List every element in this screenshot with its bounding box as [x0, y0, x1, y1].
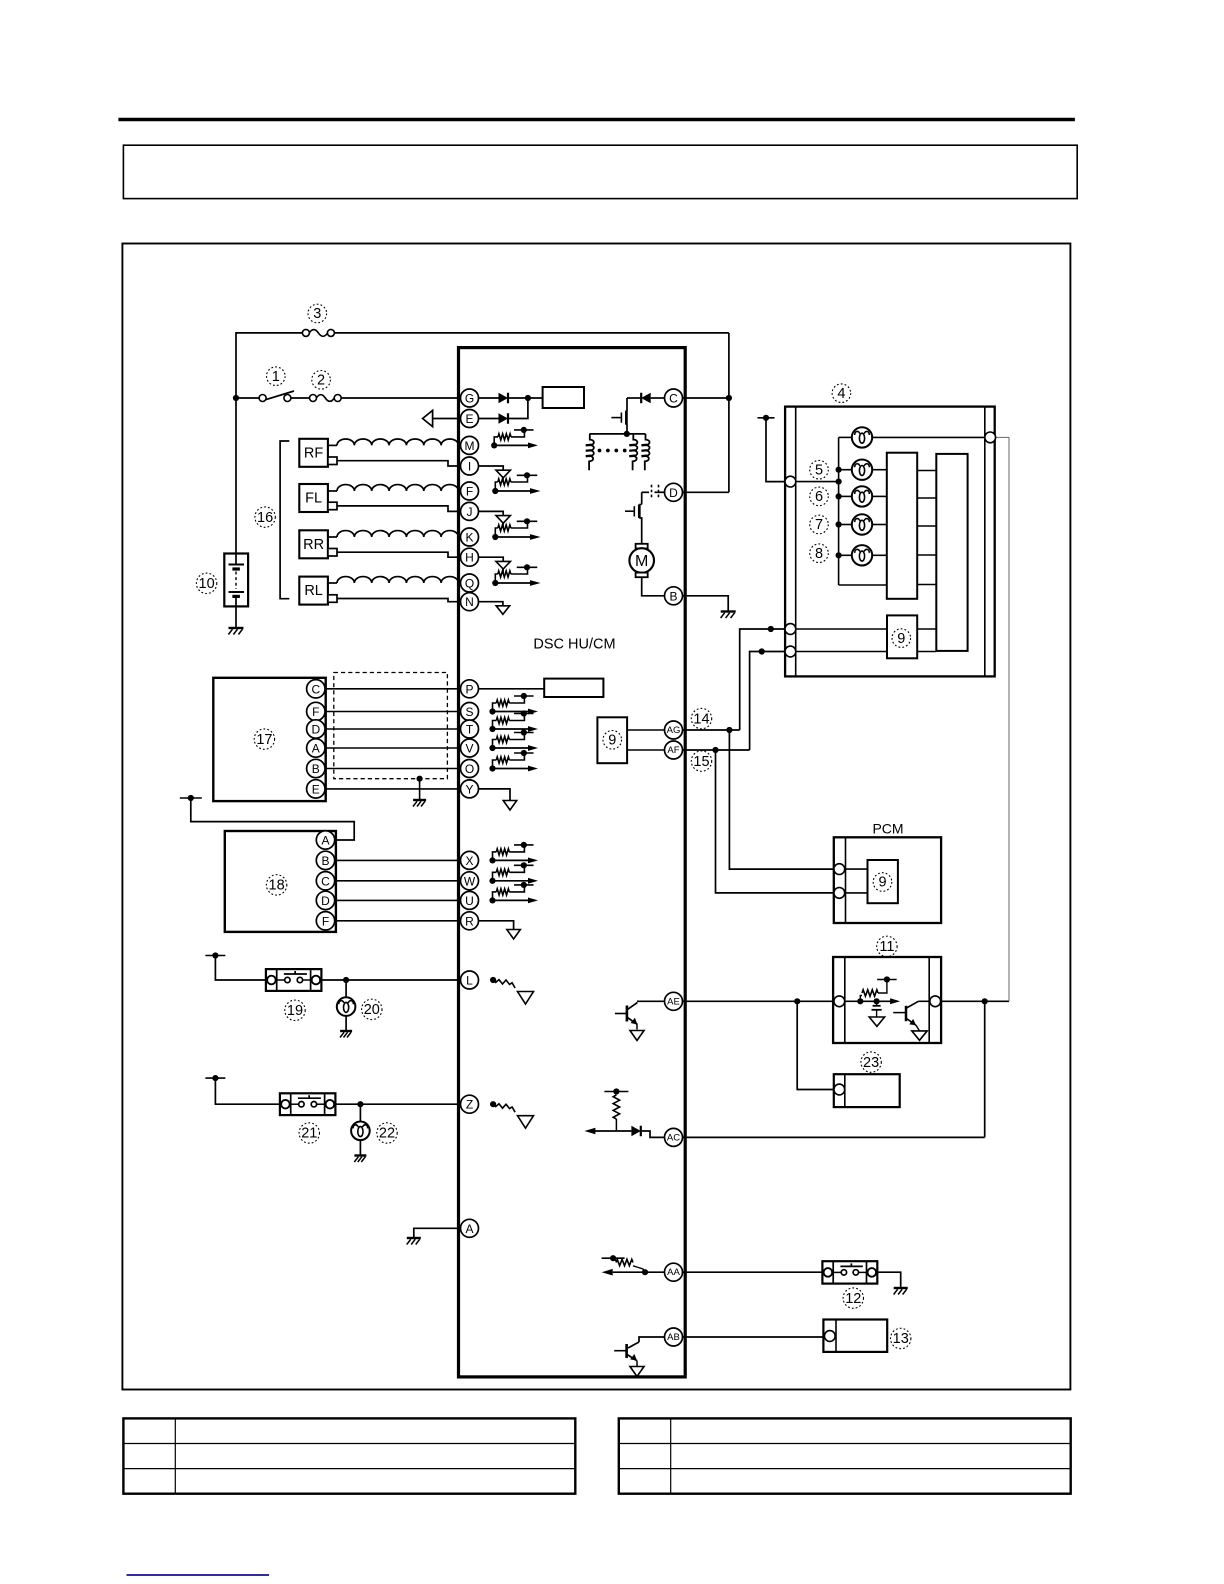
svg-text:16: 16 [257, 510, 273, 526]
thin feed from module 4 [996, 436, 1009, 438]
svg-text:10: 10 [199, 576, 215, 592]
svg-text:F: F [312, 705, 319, 719]
svg-text:U: U [465, 894, 474, 908]
wire pin B to ground [683, 596, 729, 612]
wire AE branch to unit 23 [797, 1001, 834, 1089]
pin Y [461, 780, 479, 798]
svg-text:F: F [322, 914, 329, 928]
svg-text:X: X [465, 854, 473, 868]
svg-text:19: 19 [287, 1003, 303, 1019]
page header rule [118, 118, 1075, 122]
lamp bus [838, 437, 840, 585]
wire 17-C to DSC [325, 688, 461, 690]
pin Q [461, 574, 479, 592]
svg-text:9: 9 [878, 875, 886, 891]
pin T [461, 720, 479, 738]
bus junctions [836, 467, 842, 473]
network at pin Z [490, 1101, 496, 1107]
svg-text:21: 21 [301, 1126, 317, 1142]
svg-text:9: 9 [897, 631, 905, 647]
wheel sensor RF [299, 439, 328, 467]
svg-text:18: 18 [269, 878, 285, 894]
svg-text:V: V [465, 742, 473, 756]
pin E [461, 410, 479, 428]
module 4 pins [785, 476, 796, 487]
wire fuse 19 to pin L [321, 979, 460, 981]
transformer center tap [626, 425, 628, 434]
svg-text:E: E [312, 782, 320, 796]
pin AB [665, 1328, 683, 1346]
wire 17-E to DSC [325, 788, 461, 790]
label 14 [691, 708, 711, 728]
CAN unit 9 in module 4 [887, 615, 917, 658]
input network T [489, 726, 495, 732]
PCM box [834, 837, 941, 923]
wire AA to fuse 12 [683, 1271, 823, 1273]
node C junction [726, 395, 732, 401]
svg-text:H: H [465, 551, 474, 565]
svg-text:I: I [468, 460, 471, 474]
svg-text:B: B [321, 854, 329, 868]
wire to pin C [683, 397, 729, 399]
wire pin A to ground [414, 1228, 461, 1238]
svg-text:RF: RF [304, 445, 323, 461]
wire RF signal (coiled) [328, 444, 337, 446]
pin B of 17 [307, 759, 325, 777]
control block at P [544, 679, 603, 697]
combination meter 4 [785, 407, 995, 677]
pin W [461, 872, 479, 890]
svg-text:B: B [312, 762, 320, 776]
wire motor to pin B [642, 577, 665, 596]
wire AG to indicator module 4 [683, 729, 740, 731]
wire fuse 21 to pin Z [335, 1103, 460, 1105]
wire RL signal (coiled) [328, 582, 337, 584]
pin AA [665, 1263, 683, 1281]
svg-text:AC: AC [667, 1132, 680, 1143]
pin A of 18 [316, 831, 334, 849]
input network S [489, 708, 495, 714]
wire 17-D to DSC [325, 728, 461, 730]
wire to pin D [683, 491, 729, 493]
diode at pin E [479, 418, 499, 420]
wheel sensor FL [299, 484, 328, 512]
pin B [665, 587, 683, 605]
wire 17-A to DSC [325, 747, 461, 749]
network at pin AA [602, 1257, 625, 1259]
pin AE [665, 992, 683, 1010]
pin H [461, 548, 479, 566]
CAN unit 9 in PCM [868, 860, 898, 903]
pin D of 17 [307, 720, 325, 738]
svg-text:R: R [465, 914, 474, 928]
input network W [489, 878, 495, 884]
riser to pins C and D [728, 333, 730, 492]
svg-text:22: 22 [379, 1126, 395, 1142]
dashed link at pin D [651, 485, 653, 500]
wire pin D to motor MOSFET [655, 491, 665, 493]
pin I [461, 457, 479, 475]
svg-text:RR: RR [303, 537, 324, 553]
svg-text:Z: Z [466, 1098, 473, 1112]
transformer primary coil [589, 434, 594, 470]
svg-text:6: 6 [815, 489, 823, 505]
svg-text:C: C [311, 682, 320, 696]
wire switch to fuse 2 [291, 397, 310, 399]
fuse 12 [822, 1261, 877, 1283]
battery 10 [224, 554, 248, 607]
wire 17-F to DSC [325, 711, 461, 713]
footer link line [127, 1574, 270, 1576]
pin B of 18 [316, 851, 334, 869]
warning lamp 20 [345, 980, 347, 997]
driver block 2 [936, 454, 967, 651]
svg-text:P: P [465, 682, 473, 696]
wire 18-B to DSC [325, 859, 461, 861]
shield ground [417, 776, 423, 782]
svg-text:B: B [669, 589, 677, 603]
pin J [461, 502, 479, 520]
svg-text:A: A [321, 834, 329, 848]
svg-text:K: K [465, 531, 473, 545]
svg-text:N: N [465, 595, 474, 609]
title box [123, 145, 1077, 198]
legend table left [123, 1418, 575, 1493]
network at pin L [490, 977, 496, 983]
svg-text:RL: RL [304, 583, 323, 599]
pin F of 17 [307, 702, 325, 720]
svg-text:12: 12 [845, 1291, 861, 1307]
svg-text:3: 3 [313, 306, 321, 322]
pin A [461, 1219, 479, 1237]
fuse 3 [302, 329, 309, 336]
pin C [665, 389, 683, 407]
svg-text:13: 13 [893, 1331, 909, 1347]
transformer secondary coil 1 [633, 434, 638, 470]
bracket 16 [280, 441, 289, 599]
wire AF to indicator module 4 [683, 749, 750, 751]
wire battery vertical [235, 398, 237, 554]
switch 1 [259, 395, 266, 402]
wire fuse 2 to pin G [341, 397, 461, 399]
pin C of 17 [307, 680, 325, 698]
pin S [461, 703, 479, 721]
transistor at pin AE [637, 1000, 664, 1002]
svg-text:J: J [467, 505, 473, 519]
svg-text:PCM: PCM [872, 821, 903, 837]
fuse 19 [266, 969, 322, 991]
fuse 2 [310, 395, 317, 402]
warning lamp 22 [359, 1104, 361, 1121]
pin C of 18 [316, 872, 334, 890]
unit 13 [823, 1320, 887, 1352]
control unit block at G [543, 387, 584, 408]
pin V [461, 739, 479, 757]
wire FL signal (coiled) [328, 490, 337, 492]
diagram border [122, 244, 1070, 1390]
fuse 12 to ground [877, 1272, 900, 1288]
svg-text:9: 9 [608, 733, 616, 749]
arrow out at pin E [432, 418, 460, 420]
pin L [461, 971, 479, 989]
fuse 21 [280, 1093, 336, 1115]
wire 18-F to DSC [325, 920, 461, 922]
wire RR return [337, 552, 461, 557]
svg-text:4: 4 [837, 386, 845, 402]
svg-text:L: L [466, 974, 473, 988]
pin Z [461, 1095, 479, 1113]
svg-text:G: G [465, 392, 474, 406]
pin AC [665, 1128, 683, 1146]
svg-text:8: 8 [815, 546, 823, 562]
svg-text:D: D [669, 486, 678, 500]
supply for fuse 19 [205, 955, 225, 957]
svg-text:C: C [321, 874, 330, 888]
pin N [461, 593, 479, 611]
ground arrow at pin R [479, 921, 514, 930]
unit 23 pin [834, 1084, 845, 1095]
svg-text:O: O [465, 762, 474, 776]
pin AG [665, 721, 683, 739]
svg-text:A: A [312, 742, 320, 756]
input network M [491, 442, 497, 448]
svg-text:AF: AF [667, 745, 679, 756]
svg-text:AB: AB [667, 1332, 680, 1343]
pin P [461, 680, 479, 698]
wire AB to unit 13 [683, 1336, 824, 1338]
wire 18-D to DSC [325, 899, 461, 901]
wire fuse 3 to node C/D riser [334, 332, 729, 334]
input network I-F [479, 466, 504, 470]
input network X [489, 857, 495, 863]
top lamp wire to right pin [872, 436, 985, 438]
wire 18-C to DSC [325, 880, 461, 882]
svg-text:M: M [465, 439, 475, 453]
svg-text:5: 5 [815, 462, 823, 478]
DSC HU/CM module box [459, 348, 686, 1377]
svg-text:23: 23 [863, 1055, 879, 1071]
svg-text:Q: Q [465, 577, 474, 591]
svg-text:D: D [321, 894, 330, 908]
pump motor M [636, 544, 648, 549]
pin R [461, 912, 479, 930]
wheel sensor RR [299, 530, 328, 558]
wire RR signal (coiled) [328, 536, 337, 538]
input network O [489, 765, 495, 771]
wire P to block [479, 688, 545, 690]
wire battery riser to fuse 3 row [236, 333, 303, 398]
svg-text:FL: FL [305, 491, 322, 507]
relay 11 pins [834, 996, 845, 1007]
wire RF return [337, 461, 461, 466]
supply to 18-A [180, 797, 202, 799]
svg-text:2: 2 [317, 373, 325, 389]
driver block 1 [887, 453, 917, 599]
CAN unit 9 at AG/AF [597, 717, 627, 763]
pin G [461, 389, 479, 407]
wire relay 11 to riser [941, 1000, 985, 1002]
svg-text:1: 1 [272, 369, 280, 385]
input network J-K [479, 511, 504, 515]
warning lamps [852, 427, 872, 447]
diode to pin C [627, 397, 641, 399]
svg-text:AA: AA [667, 1267, 680, 1278]
transistor at pin AB [639, 1337, 664, 1342]
transformer coupling (dotted) [598, 449, 602, 453]
PCM pins [834, 864, 845, 875]
pin E of 17 [307, 780, 325, 798]
wire AG branch to PCM [726, 727, 732, 733]
wire FL return [337, 506, 461, 512]
wheel sensor RL [299, 577, 328, 605]
pin O [461, 760, 479, 778]
svg-text:T: T [466, 723, 474, 737]
pin U [461, 891, 479, 909]
svg-text:17: 17 [256, 732, 272, 748]
relay 11 internals [845, 1000, 861, 1002]
lamp wires to driver block [872, 469, 887, 471]
svg-text:D: D [311, 723, 320, 737]
svg-text:M: M [635, 553, 648, 570]
svg-text:W: W [464, 874, 476, 888]
ground arrow at pin N [479, 602, 503, 606]
wire RL return [337, 599, 461, 602]
input network U [489, 897, 495, 903]
wire battery to switch row [233, 395, 239, 401]
svg-text:7: 7 [815, 517, 823, 533]
wire 17-B to DSC [325, 768, 461, 770]
svg-text:C: C [669, 392, 678, 406]
svg-text:14: 14 [693, 711, 709, 727]
svg-text:AE: AE [667, 996, 680, 1007]
input network V [489, 745, 495, 751]
supply for fuse 21 [205, 1077, 225, 1079]
svg-text:11: 11 [879, 939, 894, 955]
network at pin AC [604, 1091, 628, 1093]
pin A of 17 [307, 739, 325, 757]
sensor unit 17 [213, 678, 325, 801]
svg-text:DSC HU/CM: DSC HU/CM [533, 637, 615, 653]
wire AC row [683, 1136, 985, 1138]
legend table right [619, 1418, 1071, 1493]
svg-text:20: 20 [364, 1002, 380, 1018]
pin D of 18 [316, 891, 334, 909]
svg-text:Y: Y [465, 782, 473, 796]
pump motor MOSFET [625, 510, 633, 512]
svg-text:E: E [465, 412, 473, 426]
svg-text:F: F [466, 485, 473, 499]
pin AF [665, 741, 683, 759]
pin D [665, 483, 683, 501]
pin M [461, 436, 479, 454]
pin X [461, 851, 479, 869]
block links [917, 470, 936, 472]
sensor unit 18 [225, 831, 336, 932]
label 15 [691, 751, 711, 771]
input network H-Q [479, 557, 504, 561]
svg-text:A: A [465, 1222, 473, 1236]
labels 5-8 [810, 460, 829, 479]
pin K [461, 528, 479, 546]
svg-text:AG: AG [667, 725, 681, 736]
ground arrow at pin Y [479, 789, 511, 801]
transformer secondary coil 2 [645, 434, 650, 470]
relay unit 11 [833, 957, 941, 1043]
solenoid driver MOSFET [611, 417, 620, 419]
wire AF branch to PCM [712, 747, 718, 753]
pin F of 18 [316, 912, 334, 930]
wire AE row to relay 11 [683, 1000, 834, 1002]
svg-text:S: S [465, 705, 473, 719]
diode at pin G [479, 397, 499, 399]
shield (dashed) around 17 wiring [334, 673, 448, 779]
supply into 4 [758, 417, 775, 419]
svg-text:15: 15 [693, 754, 709, 770]
pin F [461, 482, 479, 500]
unit 23 [834, 1074, 900, 1107]
battery ground [229, 627, 244, 629]
